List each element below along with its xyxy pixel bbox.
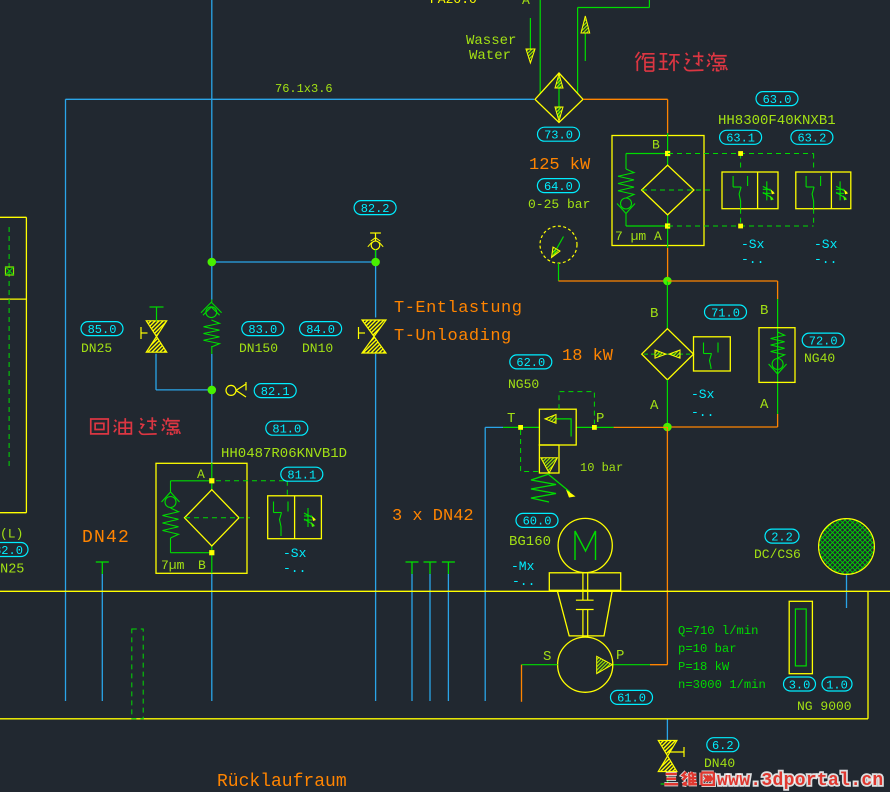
- svg-text:PA20.0: PA20.0: [430, 0, 477, 7]
- svg-text:84.0: 84.0: [306, 323, 335, 337]
- svg-text:72.0: 72.0: [809, 334, 838, 348]
- svg-text:HH8300F40KNXB1: HH8300F40KNXB1: [718, 113, 836, 129]
- svg-text:B: B: [760, 303, 768, 319]
- svg-text:71.0: 71.0: [711, 306, 740, 320]
- svg-text:A: A: [650, 398, 659, 414]
- svg-text:-..: -..: [741, 252, 764, 267]
- svg-text:7 µm: 7 µm: [615, 229, 646, 244]
- svg-text:3 x DN42: 3 x DN42: [392, 507, 474, 526]
- svg-text:(L): (L): [0, 527, 23, 542]
- svg-text:81.0: 81.0: [272, 423, 301, 437]
- svg-text:-..: -..: [283, 561, 306, 576]
- svg-text:HH0487R06KNVB1D: HH0487R06KNVB1D: [221, 446, 347, 462]
- svg-text:B: B: [198, 558, 206, 573]
- svg-text:82.1: 82.1: [261, 385, 290, 399]
- svg-text:63.1: 63.1: [726, 132, 755, 146]
- svg-text:DN25: DN25: [81, 341, 112, 356]
- svg-text:64.0: 64.0: [544, 180, 573, 194]
- svg-text:DN42: DN42: [82, 528, 130, 548]
- svg-text:Water: Water: [469, 48, 511, 64]
- svg-text:81.1: 81.1: [287, 469, 316, 483]
- svg-text:DN40: DN40: [704, 756, 735, 771]
- svg-text:Rücklaufraum: Rücklaufraum: [217, 772, 347, 792]
- svg-text:-Sx: -Sx: [814, 237, 838, 252]
- svg-text:-Mx: -Mx: [511, 559, 535, 574]
- svg-text:NG 9000: NG 9000: [797, 699, 852, 714]
- svg-text:82.2: 82.2: [361, 202, 390, 216]
- svg-text:73.0: 73.0: [544, 129, 573, 143]
- svg-text:18 kW: 18 kW: [562, 347, 614, 366]
- svg-text:63.0: 63.0: [763, 93, 792, 107]
- svg-text:-Sx: -Sx: [691, 387, 715, 402]
- svg-text:76.1x3.6: 76.1x3.6: [275, 82, 333, 96]
- svg-text:n=3000 1/min: n=3000 1/min: [678, 678, 766, 692]
- svg-text:DC/CS6: DC/CS6: [754, 547, 801, 562]
- svg-text:A: A: [522, 0, 530, 8]
- svg-text:BG160: BG160: [509, 534, 551, 550]
- svg-text:S: S: [543, 649, 551, 665]
- svg-text:83.0: 83.0: [248, 323, 277, 337]
- svg-text:DN150: DN150: [239, 341, 278, 356]
- svg-text:p=10 bar: p=10 bar: [678, 642, 737, 656]
- svg-text:1.0: 1.0: [826, 678, 848, 692]
- svg-text:-Sx: -Sx: [741, 237, 765, 252]
- svg-text:P: P: [616, 648, 624, 664]
- svg-text:P=18 kW: P=18 kW: [678, 660, 730, 674]
- svg-text:P: P: [596, 411, 604, 427]
- svg-text:60.0: 60.0: [523, 515, 552, 529]
- svg-text:B: B: [650, 306, 658, 322]
- svg-text:A: A: [760, 397, 769, 413]
- svg-text:B: B: [652, 138, 660, 153]
- svg-text:3.0: 3.0: [789, 678, 811, 692]
- svg-text:0-25 bar: 0-25 bar: [528, 197, 590, 212]
- svg-text:-Sx: -Sx: [283, 546, 307, 561]
- svg-text:A: A: [654, 229, 662, 244]
- svg-text:T-Unloading: T-Unloading: [394, 327, 512, 346]
- svg-text:85.0: 85.0: [88, 323, 117, 337]
- svg-text:82.0: 82.0: [0, 544, 23, 558]
- svg-text:NG40: NG40: [804, 351, 835, 366]
- svg-text:-..: -..: [512, 574, 535, 589]
- svg-text:-..: -..: [691, 405, 714, 420]
- svg-text:2.2: 2.2: [771, 530, 793, 544]
- svg-text:61.0: 61.0: [617, 692, 646, 706]
- svg-text:63.2: 63.2: [797, 132, 826, 146]
- svg-text:125 kW: 125 kW: [529, 156, 591, 175]
- svg-text:www.3dportal.cn: www.3dportal.cn: [717, 771, 884, 791]
- svg-text:Wasser: Wasser: [466, 33, 516, 49]
- svg-text:T: T: [507, 411, 515, 427]
- svg-text:Q=710 l/min: Q=710 l/min: [678, 624, 758, 638]
- svg-text:NG50: NG50: [508, 377, 539, 392]
- svg-text:62.0: 62.0: [516, 356, 545, 370]
- svg-text:DN25: DN25: [0, 563, 24, 578]
- svg-text:A: A: [197, 467, 205, 482]
- svg-text:DN10: DN10: [302, 341, 333, 356]
- svg-text:T-Entlastung: T-Entlastung: [394, 299, 522, 318]
- svg-text:7µm: 7µm: [161, 558, 185, 573]
- svg-text:-..: -..: [814, 252, 837, 267]
- svg-text:10 bar: 10 bar: [580, 461, 623, 475]
- svg-text:6.2: 6.2: [712, 739, 734, 753]
